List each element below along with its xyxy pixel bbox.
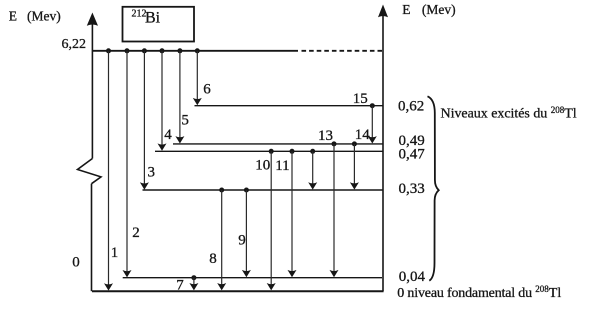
svg-text:15: 15 <box>353 91 368 107</box>
right axis arrowhead <box>378 5 388 18</box>
svg-text:11: 11 <box>275 158 289 174</box>
level 0.04 <box>123 277 382 279</box>
transition arrow 15 <box>353 91 377 144</box>
svg-text:E(Mev): E(Mev) <box>402 2 455 17</box>
transition arrow 13 <box>318 128 339 277</box>
svg-text:5: 5 <box>181 112 189 128</box>
transition arrow 4 <box>158 48 173 151</box>
svg-text:6,22: 6,22 <box>62 37 87 52</box>
transition arrow 8 <box>209 188 226 291</box>
level 0.49 <box>173 143 383 145</box>
transition arrow 5 <box>175 48 189 143</box>
left axis E <box>78 24 102 291</box>
brace for excited levels <box>428 96 439 280</box>
svg-text:212: 212 <box>132 9 147 20</box>
svg-text:0,04: 0,04 <box>399 269 426 285</box>
transition arrow 11 <box>275 149 296 277</box>
svg-text:7: 7 <box>176 277 184 293</box>
svg-text:3: 3 <box>148 165 156 181</box>
level 6.22 dashed <box>302 50 383 52</box>
transition arrow 1 <box>104 48 118 290</box>
transition arrow 12 (unlabelled) <box>308 149 317 190</box>
212Bi box <box>123 7 195 42</box>
svg-text:13: 13 <box>318 128 333 144</box>
level 0.33 <box>143 189 383 191</box>
level 0 ground line <box>92 290 384 292</box>
svg-text:6: 6 <box>203 82 211 98</box>
svg-text:2: 2 <box>132 225 140 241</box>
left axis arrowhead <box>87 13 98 26</box>
transition arrow 6 <box>193 48 212 105</box>
svg-text:14: 14 <box>355 127 371 143</box>
transition arrow 9 <box>238 188 251 278</box>
svg-text:10: 10 <box>255 158 270 174</box>
svg-text:0,62: 0,62 <box>398 98 424 114</box>
transition arrow 2 <box>123 48 140 277</box>
svg-text:0,33: 0,33 <box>399 181 425 197</box>
svg-text:9: 9 <box>238 232 246 248</box>
svg-text:1: 1 <box>111 245 119 261</box>
transition arrow 3 <box>140 48 155 189</box>
svg-text:4: 4 <box>164 127 172 143</box>
level 6.22 solid <box>92 50 298 52</box>
right axis E <box>382 16 384 291</box>
level 0.62 <box>195 105 383 107</box>
transition arrow 10 <box>255 149 275 291</box>
transition arrow 7 <box>176 275 198 293</box>
svg-text:0: 0 <box>72 254 80 270</box>
svg-text:E(Mev): E(Mev) <box>9 9 61 24</box>
svg-text:8: 8 <box>209 251 217 267</box>
transition arrow 14 <box>350 127 370 190</box>
svg-text:0,47: 0,47 <box>399 146 426 162</box>
svg-text:Bi: Bi <box>145 10 161 27</box>
level 0.47 <box>155 150 383 152</box>
